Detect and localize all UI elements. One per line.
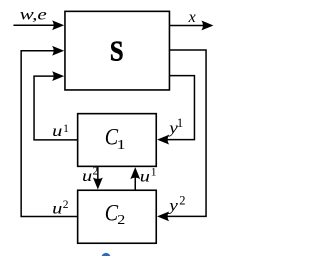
svg-text:w,e: w,e: [20, 7, 47, 24]
svg-text:y: y: [167, 198, 179, 215]
svg-text:u: u: [82, 168, 92, 185]
svg-text:2: 2: [117, 213, 125, 228]
svg-text:x: x: [188, 9, 196, 26]
svg-text:1: 1: [151, 166, 157, 178]
svg-text:S: S: [110, 36, 124, 67]
svg-text:1: 1: [117, 138, 126, 153]
svg-text:1: 1: [177, 116, 183, 130]
svg-text:u: u: [52, 201, 62, 218]
svg-text:2: 2: [63, 199, 69, 211]
svg-text:2: 2: [93, 166, 99, 178]
svg-text:2: 2: [179, 194, 185, 208]
svg-text:1: 1: [63, 123, 69, 135]
svg-text:u: u: [140, 169, 150, 186]
svg-text:u: u: [52, 123, 62, 140]
